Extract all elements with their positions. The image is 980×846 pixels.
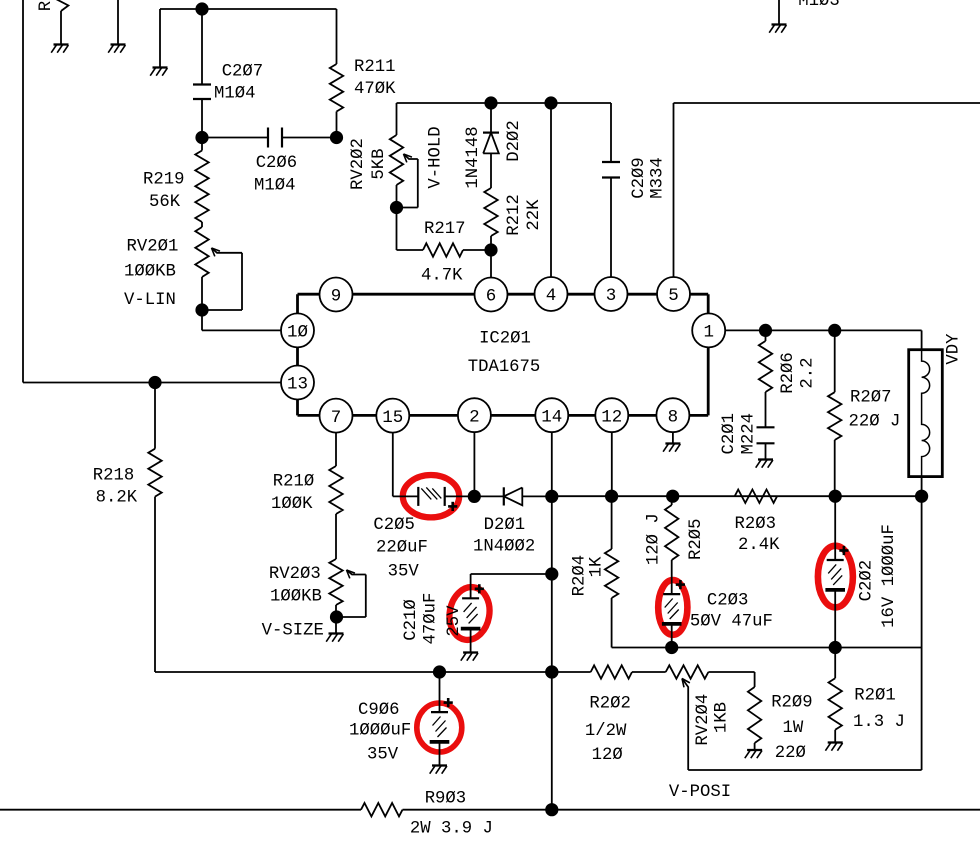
svg-text:56K: 56K [149,193,181,212]
svg-text:22K: 22K [525,199,544,231]
svg-text:C2Ø1: C2Ø1 [720,413,739,454]
svg-text:47ØK: 47ØK [354,80,396,99]
svg-text:R2Ø1: R2Ø1 [854,687,895,706]
svg-text:22ØuF: 22ØuF [376,539,428,558]
svg-text:D2Ø1: D2Ø1 [484,516,525,535]
svg-text:M1Ø3: M1Ø3 [798,0,839,11]
svg-text:RV2Ø2: RV2Ø2 [349,138,368,190]
svg-text:RV2Ø4: RV2Ø4 [694,694,713,746]
svg-text:7: 7 [331,408,342,428]
svg-text:R212: R212 [505,194,524,235]
svg-text:12: 12 [601,407,622,427]
svg-text:C9Ø6: C9Ø6 [358,701,399,720]
svg-text:1.3 J: 1.3 J [853,713,905,732]
svg-text:1N4ØØ2: 1N4ØØ2 [473,538,535,557]
svg-text:1N4148: 1N4148 [464,126,483,188]
svg-text:M224: M224 [739,413,758,454]
svg-text:2W 3.9 J: 2W 3.9 J [410,819,493,838]
svg-text:22Ø J: 22Ø J [849,413,901,432]
svg-text:5ØV 47uF: 5ØV 47uF [690,613,773,632]
svg-text:12Ø: 12Ø [592,746,623,765]
svg-text:R: R [37,1,56,11]
svg-text:R2Ø9: R2Ø9 [771,693,812,712]
svg-text:1ØØØuF: 1ØØØuF [349,722,411,741]
svg-text:C2Ø2: C2Ø2 [857,560,876,601]
svg-text:D2Ø2: D2Ø2 [505,120,524,161]
svg-text:4.7K: 4.7K [421,267,463,286]
svg-text:R2Ø5: R2Ø5 [687,518,706,559]
svg-text:R217: R217 [424,220,465,239]
svg-text:22Ø: 22Ø [775,744,806,763]
svg-text:35V: 35V [367,745,399,764]
svg-text:16V 1ØØØuF: 16V 1ØØØuF [880,524,899,628]
svg-text:IC2Ø1: IC2Ø1 [479,329,531,348]
svg-text:13: 13 [287,375,308,395]
svg-text:M1Ø4: M1Ø4 [214,85,255,104]
svg-text:1ØØKB: 1ØØKB [124,262,176,281]
svg-text:R21Ø: R21Ø [273,472,314,491]
svg-text:VDY: VDY [945,333,964,365]
svg-text:1W: 1W [783,719,804,738]
svg-text:6: 6 [486,287,497,307]
svg-text:1/2W: 1/2W [585,722,627,741]
svg-text:V-LIN: V-LIN [124,291,176,310]
svg-text:C2Ø7: C2Ø7 [222,63,263,82]
svg-text:2.2: 2.2 [798,357,817,388]
svg-text:V-POSI: V-POSI [669,783,731,802]
svg-text:C2Ø5: C2Ø5 [373,516,414,535]
svg-text:25V: 25V [445,605,464,637]
svg-text:15: 15 [382,408,403,428]
svg-text:8.2K: 8.2K [96,489,138,508]
svg-text:2.4K: 2.4K [738,536,780,555]
svg-text:C2Ø9: C2Ø9 [630,157,649,198]
svg-text:R218: R218 [93,467,134,486]
svg-text:M334: M334 [649,157,668,198]
svg-text:C2Ø3: C2Ø3 [707,592,748,611]
svg-text:R2Ø2: R2Ø2 [589,694,630,713]
svg-text:C2Ø6: C2Ø6 [256,154,297,173]
svg-text:TDA1675: TDA1675 [468,358,541,377]
svg-text:M1Ø4: M1Ø4 [254,176,295,195]
svg-text:8: 8 [668,407,679,427]
svg-text:5KB: 5KB [370,148,389,179]
svg-text:RV2Ø3: RV2Ø3 [269,565,321,584]
svg-text:R2Ø3: R2Ø3 [735,515,776,534]
svg-text:V-SIZE: V-SIZE [262,621,324,640]
svg-text:1ØØKB: 1ØØKB [270,588,322,607]
svg-text:V-HOLD: V-HOLD [427,126,446,188]
svg-text:35V: 35V [388,563,420,582]
svg-text:9: 9 [331,287,342,307]
svg-text:4: 4 [546,286,557,306]
svg-text:R2Ø6: R2Ø6 [779,352,798,393]
svg-text:C21Ø: C21Ø [402,599,421,640]
svg-text:R9Ø3: R9Ø3 [425,790,466,809]
svg-text:5: 5 [668,286,679,306]
svg-text:RV2Ø1: RV2Ø1 [127,238,179,257]
svg-text:1Ø: 1Ø [287,323,308,343]
svg-text:1KB: 1KB [713,702,732,733]
svg-text:12Ø J: 12Ø J [644,513,663,565]
svg-text:47ØuF: 47ØuF [421,593,440,645]
svg-text:14: 14 [541,407,562,427]
svg-text:R211: R211 [354,58,395,77]
svg-text:2: 2 [469,407,480,427]
svg-text:3: 3 [606,286,617,306]
svg-text:1: 1 [703,323,714,343]
svg-text:R2Ø7: R2Ø7 [850,389,891,408]
svg-text:1K: 1K [588,556,607,577]
svg-text:1ØØK: 1ØØK [271,495,313,514]
svg-text:R219: R219 [143,171,184,190]
